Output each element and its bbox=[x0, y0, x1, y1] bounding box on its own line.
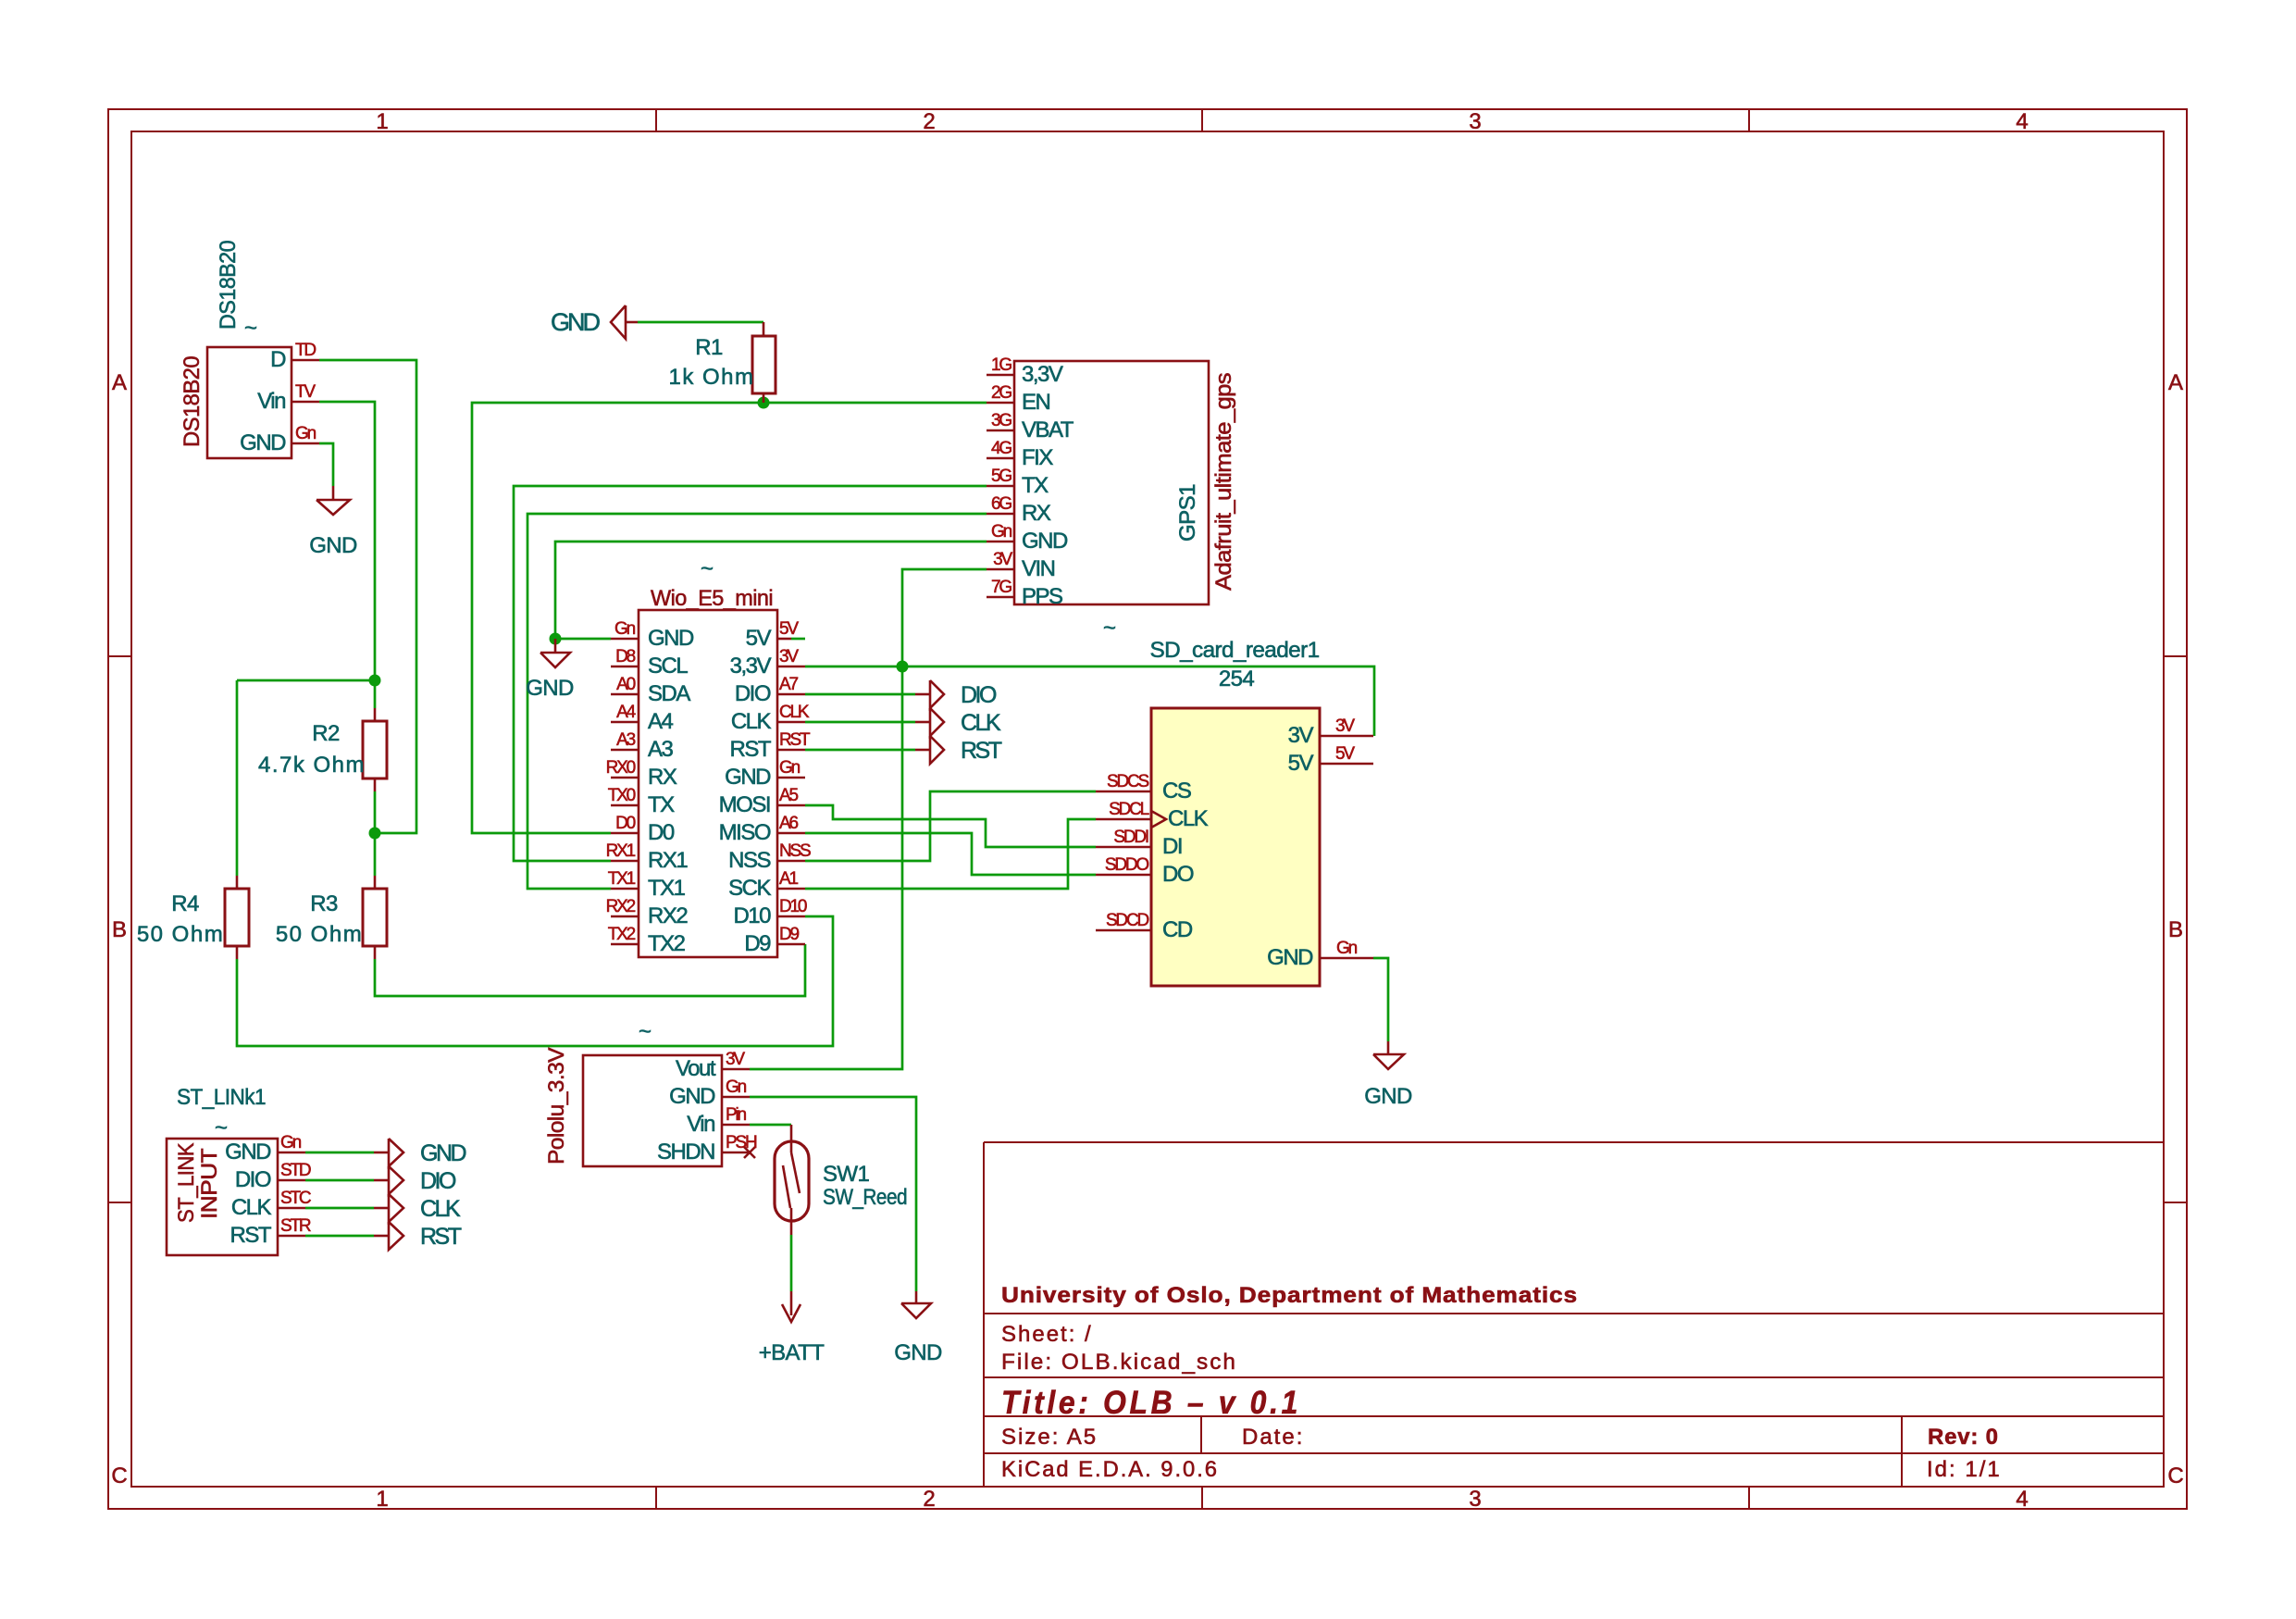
svg-text:A3: A3 bbox=[648, 737, 674, 762]
svg-text:1G: 1G bbox=[991, 355, 1011, 375]
svg-text:GND: GND bbox=[526, 676, 574, 701]
svg-text:VBAT: VBAT bbox=[1022, 417, 1074, 442]
svg-text:Gn: Gn bbox=[280, 1133, 302, 1152]
svg-text:DI: DI bbox=[1162, 834, 1182, 859]
svg-text:DIO: DIO bbox=[420, 1168, 456, 1194]
svg-text:SD_card_reader1: SD_card_reader1 bbox=[1150, 638, 1320, 663]
svg-text:RX0: RX0 bbox=[606, 758, 636, 778]
svg-text:2: 2 bbox=[923, 1487, 935, 1512]
svg-text:1k Ohm: 1k Ohm bbox=[668, 365, 754, 390]
svg-text:SHDN: SHDN bbox=[657, 1140, 714, 1164]
svg-text:RST: RST bbox=[961, 738, 1002, 764]
svg-text:SDCD: SDCD bbox=[1106, 911, 1149, 930]
svg-text:File: OLB.kicad_sch: File: OLB.kicad_sch bbox=[1001, 1350, 1237, 1375]
svg-text:NSS: NSS bbox=[779, 841, 811, 861]
svg-text:RST: RST bbox=[730, 737, 772, 762]
svg-text:B: B bbox=[112, 917, 127, 942]
svg-text:~: ~ bbox=[215, 1115, 227, 1140]
svg-text:DIO: DIO bbox=[961, 682, 997, 708]
svg-text:CLK: CLK bbox=[420, 1196, 461, 1222]
svg-text:A5: A5 bbox=[779, 786, 798, 805]
svg-text:Gn: Gn bbox=[295, 424, 316, 443]
svg-text:DS18B20: DS18B20 bbox=[180, 356, 205, 447]
svg-text:ST_LINK: ST_LINK bbox=[174, 1142, 199, 1223]
svg-text:GND: GND bbox=[551, 308, 601, 336]
svg-text:D0: D0 bbox=[648, 820, 675, 845]
svg-text:RX: RX bbox=[648, 765, 677, 790]
svg-text:GPS1: GPS1 bbox=[1175, 484, 1200, 542]
svg-text:3V: 3V bbox=[726, 1050, 745, 1069]
svg-text:TX0: TX0 bbox=[608, 786, 636, 805]
svg-text:3G: 3G bbox=[991, 411, 1011, 430]
svg-text:D10: D10 bbox=[733, 903, 771, 928]
svg-text:NSS: NSS bbox=[728, 848, 770, 873]
svg-text:CS: CS bbox=[1162, 778, 1191, 803]
svg-text:SDA: SDA bbox=[648, 681, 690, 706]
svg-text:RX: RX bbox=[1022, 501, 1051, 526]
svg-text:A0: A0 bbox=[616, 675, 635, 694]
svg-text:GND: GND bbox=[725, 765, 771, 790]
svg-text:Gn: Gn bbox=[1336, 939, 1358, 958]
svg-text:Gn: Gn bbox=[726, 1077, 747, 1097]
svg-text:D10: D10 bbox=[779, 897, 807, 916]
svg-text:RST: RST bbox=[420, 1224, 462, 1250]
svg-text:RST: RST bbox=[230, 1223, 272, 1248]
svg-text:3V: 3V bbox=[779, 647, 799, 666]
svg-text:3,3V: 3,3V bbox=[730, 654, 772, 679]
svg-text:GND: GND bbox=[1267, 945, 1313, 970]
svg-text:A: A bbox=[2168, 370, 2183, 395]
svg-text:~: ~ bbox=[1103, 616, 1115, 641]
svg-text:D0: D0 bbox=[615, 814, 636, 833]
svg-text:7G: 7G bbox=[991, 578, 1011, 597]
svg-text:Vin: Vin bbox=[257, 389, 285, 414]
svg-text:Pololu_3.3V: Pololu_3.3V bbox=[544, 1047, 569, 1164]
svg-text:Date:: Date: bbox=[1242, 1425, 1304, 1450]
svg-text:A4: A4 bbox=[648, 709, 674, 734]
svg-text:4.7k Ohm: 4.7k Ohm bbox=[258, 753, 366, 778]
svg-text:C: C bbox=[2167, 1463, 2183, 1488]
svg-text:3: 3 bbox=[1469, 1487, 1481, 1512]
svg-text:PSH: PSH bbox=[726, 1133, 757, 1152]
svg-text:Sheet: /: Sheet: / bbox=[1001, 1322, 1093, 1347]
svg-text:RX1: RX1 bbox=[606, 841, 636, 861]
svg-text:RST: RST bbox=[779, 730, 811, 750]
svg-text:TD: TD bbox=[295, 341, 316, 360]
svg-text:GND: GND bbox=[420, 1140, 466, 1166]
svg-text:Pin: Pin bbox=[726, 1105, 746, 1125]
svg-text:C: C bbox=[111, 1463, 127, 1488]
svg-text:A: A bbox=[112, 370, 127, 395]
svg-text:~: ~ bbox=[639, 1019, 651, 1044]
svg-text:1: 1 bbox=[376, 1487, 388, 1512]
svg-text:SCK: SCK bbox=[728, 876, 771, 901]
svg-text:Id: 1/1: Id: 1/1 bbox=[1927, 1457, 2002, 1482]
svg-text:6G: 6G bbox=[991, 494, 1011, 514]
svg-text:4G: 4G bbox=[991, 439, 1011, 458]
svg-text:254: 254 bbox=[1219, 666, 1254, 691]
svg-text:GND: GND bbox=[225, 1140, 271, 1164]
svg-text:GND: GND bbox=[309, 533, 357, 558]
svg-text:STC: STC bbox=[280, 1189, 311, 1208]
svg-text:Size: A5: Size: A5 bbox=[1001, 1425, 1098, 1450]
svg-text:B: B bbox=[2168, 917, 2183, 942]
svg-text:RX1: RX1 bbox=[648, 848, 688, 873]
svg-text:+BATT: +BATT bbox=[759, 1340, 825, 1365]
svg-text:VIN: VIN bbox=[1022, 556, 1055, 581]
svg-text:DS18B20: DS18B20 bbox=[216, 241, 241, 330]
svg-text:5V: 5V bbox=[746, 626, 772, 651]
svg-text:Gn: Gn bbox=[991, 522, 1012, 542]
svg-text:SDCS: SDCS bbox=[1107, 772, 1149, 791]
svg-text:3: 3 bbox=[1469, 109, 1481, 134]
svg-text:5V: 5V bbox=[1288, 751, 1314, 776]
svg-text:CLK: CLK bbox=[1168, 806, 1209, 831]
svg-text:KiCad E.D.A. 9.0.6: KiCad E.D.A. 9.0.6 bbox=[1001, 1457, 1219, 1482]
svg-text:ST_LINk1: ST_LINk1 bbox=[177, 1085, 266, 1110]
svg-text:5V: 5V bbox=[1335, 744, 1355, 764]
svg-text:5V: 5V bbox=[779, 619, 799, 639]
svg-text:GND: GND bbox=[669, 1084, 715, 1109]
svg-text:CLK: CLK bbox=[731, 709, 772, 734]
svg-text:A7: A7 bbox=[779, 675, 798, 694]
svg-text:EN: EN bbox=[1022, 390, 1050, 415]
svg-text:Adafruit_ultimate_gps: Adafruit_ultimate_gps bbox=[1211, 372, 1236, 591]
svg-text:INPUT: INPUT bbox=[197, 1148, 222, 1219]
svg-text:GND: GND bbox=[648, 626, 694, 651]
svg-text:TX1: TX1 bbox=[648, 876, 686, 901]
svg-text:GND: GND bbox=[240, 430, 286, 455]
svg-text:CLK: CLK bbox=[779, 703, 810, 722]
svg-text:Wio_E5_mini: Wio_E5_mini bbox=[651, 586, 773, 611]
svg-text:Vout: Vout bbox=[676, 1056, 716, 1081]
svg-text:PPS: PPS bbox=[1022, 584, 1062, 609]
svg-text:MISO: MISO bbox=[719, 820, 771, 845]
svg-text:SW_Reed: SW_Reed bbox=[823, 1185, 907, 1210]
svg-text:3V: 3V bbox=[993, 550, 1012, 569]
svg-text:3,3V: 3,3V bbox=[1022, 362, 1063, 387]
svg-text:TX2: TX2 bbox=[648, 931, 686, 956]
svg-text:CLK: CLK bbox=[961, 710, 1001, 736]
svg-text:Rev: 0: Rev: 0 bbox=[1928, 1425, 1999, 1450]
svg-text:A4: A4 bbox=[616, 703, 636, 722]
svg-text:A3: A3 bbox=[616, 730, 635, 750]
svg-text:D9: D9 bbox=[744, 931, 771, 956]
svg-text:GND: GND bbox=[1364, 1084, 1412, 1109]
svg-text:~: ~ bbox=[244, 316, 256, 341]
svg-text:D9: D9 bbox=[779, 925, 800, 944]
svg-text:Gn: Gn bbox=[614, 619, 636, 639]
svg-text:Vin: Vin bbox=[687, 1112, 714, 1137]
svg-text:RX2: RX2 bbox=[648, 903, 688, 928]
svg-text:SW1: SW1 bbox=[823, 1162, 869, 1187]
svg-text:SDDO: SDDO bbox=[1105, 855, 1149, 875]
svg-text:R4: R4 bbox=[171, 891, 199, 916]
svg-text:STR: STR bbox=[280, 1216, 311, 1236]
svg-text:D8: D8 bbox=[615, 647, 636, 666]
svg-text:CLK: CLK bbox=[231, 1195, 272, 1220]
svg-text:TX2: TX2 bbox=[608, 925, 636, 944]
svg-text:Title: OLB – v 0.1: Title: OLB – v 0.1 bbox=[1001, 1385, 1301, 1421]
svg-text:GND: GND bbox=[1022, 529, 1068, 554]
svg-text:TX1: TX1 bbox=[608, 869, 636, 889]
svg-text:FIX: FIX bbox=[1022, 445, 1053, 470]
svg-text:TV: TV bbox=[295, 382, 316, 402]
svg-text:R2: R2 bbox=[312, 721, 340, 746]
svg-text:5G: 5G bbox=[991, 467, 1011, 486]
svg-text:A6: A6 bbox=[779, 814, 798, 833]
svg-text:R1: R1 bbox=[695, 335, 723, 360]
svg-text:TX: TX bbox=[648, 792, 675, 817]
svg-text:CD: CD bbox=[1162, 917, 1193, 942]
svg-text:GND: GND bbox=[894, 1340, 942, 1365]
svg-text:A1: A1 bbox=[779, 869, 798, 889]
svg-text:50 Ohm: 50 Ohm bbox=[137, 922, 224, 947]
svg-text:SDDI: SDDI bbox=[1113, 828, 1148, 847]
svg-text:3V: 3V bbox=[1335, 716, 1355, 736]
svg-text:DIO: DIO bbox=[735, 681, 771, 706]
svg-text:SDCL: SDCL bbox=[1109, 800, 1149, 819]
svg-text:DO: DO bbox=[1162, 862, 1194, 887]
svg-text:~: ~ bbox=[701, 556, 713, 581]
svg-text:DIO: DIO bbox=[235, 1167, 271, 1192]
svg-text:2G: 2G bbox=[991, 383, 1011, 403]
svg-text:RX2: RX2 bbox=[606, 897, 636, 916]
svg-text:4: 4 bbox=[2016, 1487, 2028, 1512]
svg-text:3V: 3V bbox=[1288, 723, 1314, 748]
svg-text:R3: R3 bbox=[310, 891, 338, 916]
svg-text:1: 1 bbox=[376, 109, 388, 134]
svg-text:MOSI: MOSI bbox=[719, 792, 770, 817]
svg-text:50 Ohm: 50 Ohm bbox=[276, 922, 363, 947]
svg-text:SCL: SCL bbox=[648, 654, 688, 679]
svg-text:D: D bbox=[270, 347, 286, 372]
svg-text:Gn: Gn bbox=[779, 758, 800, 778]
svg-text:2: 2 bbox=[923, 109, 935, 134]
svg-text:STD: STD bbox=[280, 1161, 311, 1180]
svg-text:4: 4 bbox=[2016, 109, 2028, 134]
svg-text:TX: TX bbox=[1022, 473, 1049, 498]
svg-text:University of Oslo, Department: University of Oslo, Department of Mathem… bbox=[1001, 1283, 1578, 1308]
